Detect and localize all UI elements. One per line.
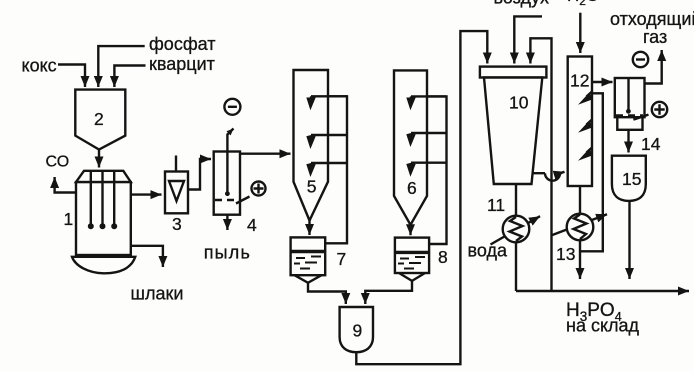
cooler 13 (567, 214, 594, 241)
plus terminal of 14 (652, 102, 667, 117)
collecting plate 4 (dashed) (215, 199, 239, 201)
hydration column 12 (568, 57, 592, 187)
furnace 1 lid (76, 171, 131, 182)
cooler 11 (503, 216, 530, 243)
cyclone 3 (165, 172, 188, 214)
hopper of 14 (617, 117, 642, 130)
spray tower 5 (294, 70, 329, 221)
spray nozzle 5c (311, 162, 347, 164)
svg-text:6: 6 (407, 178, 417, 198)
wire vessel 15 outlet (628, 201, 630, 279)
svg-text:фосфат: фосфат (149, 34, 216, 54)
svg-text:газ: газ (643, 27, 667, 47)
cyclone 3 stub (175, 156, 177, 172)
wire water feed (579, 13, 581, 53)
minus terminal of 4 (224, 99, 240, 115)
svg-text:4: 4 (247, 215, 257, 235)
liquid level 7 (291, 250, 326, 253)
wire tower 6 to tank 8 (409, 225, 411, 235)
svg-text:5: 5 (307, 177, 317, 197)
spray nozzle 5b (311, 134, 347, 136)
furnace 1 dish bottom (72, 257, 135, 274)
plus terminal of 4 (252, 182, 266, 196)
svg-text:11: 11 (487, 195, 505, 215)
spray nozzle 12c (587, 148, 593, 153)
svg-text:2: 2 (94, 109, 104, 129)
product manifold (516, 290, 689, 292)
svg-text:пыль: пыль (204, 243, 251, 263)
wire hopper to furnace (98, 150, 100, 168)
hopper 2 (75, 90, 125, 150)
electrode middle (101, 172, 103, 226)
wire column 12 outlet (579, 186, 581, 279)
wire furnace to cyclone (131, 193, 162, 195)
wire acid recirculation to header (530, 38, 551, 291)
svg-text:12: 12 (570, 71, 589, 91)
precipitator 14 (615, 78, 645, 117)
wire koks feed (58, 65, 85, 88)
spray nozzle 6c (411, 161, 447, 163)
wire tower 10 outlet (515, 184, 517, 291)
wire tank 8 to vessel 9 (365, 281, 412, 304)
electrode left (90, 172, 92, 226)
svg-text:13: 13 (556, 244, 575, 264)
wire exhaust gas (645, 50, 662, 84)
wire fosfat feed (98, 46, 144, 87)
cooling water line 11 (491, 216, 541, 244)
svg-text:3: 3 (172, 214, 182, 234)
spray tower 6 (394, 70, 427, 224)
spray nozzle 6a (411, 95, 447, 97)
svg-text:на склад: на склад (566, 316, 640, 336)
wire 14 to vessel 15 (627, 130, 629, 153)
wire vessel 9 to tower 10 header (356, 31, 487, 364)
corona wire 4 (227, 129, 233, 194)
electrode right (113, 172, 115, 226)
wire tower 5 to tank 7 (308, 221, 310, 236)
svg-text:10: 10 (509, 93, 529, 113)
tank 8 (395, 238, 429, 273)
recirculation pipe of tower 5 (325, 96, 347, 243)
svg-text:шлаки: шлаки (131, 284, 184, 304)
cooling water line 13 (551, 214, 607, 235)
wire cyclone to precipitator (188, 159, 211, 190)
wire 4 to tower 5 (240, 152, 291, 154)
minus terminal of 14 (633, 52, 648, 67)
collecting plate 14 (dashed) (616, 114, 643, 116)
wire CO outlet (55, 177, 76, 193)
liquid level 8 (395, 251, 429, 254)
svg-text:15: 15 (622, 169, 641, 189)
wire tank 7 to vessel 9 (308, 283, 346, 305)
wire tower 10 gas to column 12 (533, 172, 545, 174)
header of tower 10 (480, 67, 547, 78)
corona wire 14 (627, 78, 629, 111)
svg-text:14: 14 (641, 134, 661, 154)
wire air feed (514, 16, 542, 63)
svg-text:8: 8 (438, 247, 448, 267)
wire slag outlet (131, 246, 163, 267)
wire dust outlet (226, 215, 228, 230)
recirculation pipe of tower 6 (427, 96, 447, 244)
tank 7 (291, 237, 326, 275)
wire kvarcit feed (114, 66, 145, 88)
spray nozzle 5a (311, 95, 347, 97)
svg-text:H2O: H2O (567, 0, 599, 8)
svg-text:вода: вода (468, 241, 508, 261)
wire column 12 gas to precipitator 14 (592, 81, 613, 83)
svg-text:кокс: кокс (22, 56, 57, 76)
plus lead tick 4 (236, 197, 250, 204)
svg-text:СО: СО (46, 154, 70, 171)
precipitator 4 (214, 152, 240, 215)
spray nozzle 12b (587, 120, 593, 125)
plus lead tick 14 (633, 115, 648, 120)
vessel 15 (612, 156, 646, 201)
spray nozzle 12a (587, 92, 593, 97)
svg-text:кварцит: кварцит (149, 54, 215, 74)
svg-text:7: 7 (337, 249, 347, 269)
svg-text:отходящий: отходящий (610, 9, 694, 29)
svg-text:1: 1 (64, 209, 74, 229)
furnace 1 body (76, 182, 131, 255)
vessel 9 (340, 307, 373, 352)
spray nozzle 6b (411, 132, 447, 134)
svg-text:воздух: воздух (494, 0, 550, 8)
combustion tower 10 (484, 78, 542, 185)
svg-text:9: 9 (353, 321, 363, 341)
recirculation pipe of column 12 (580, 93, 603, 251)
